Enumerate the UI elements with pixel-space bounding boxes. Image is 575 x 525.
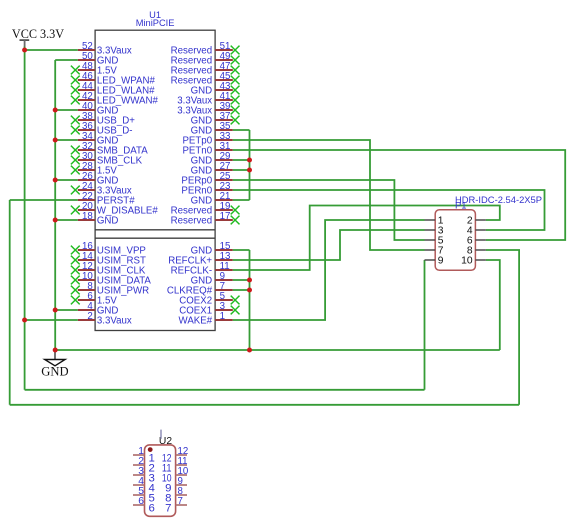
U1 pin 45 Reserved [171,71,240,86]
U2 pin 1 [133,446,155,465]
svg-text:6: 6 [138,496,144,507]
wire REFCLK- to P1 pin2 [233,206,500,271]
wire pin 21 GND tie [233,199,250,201]
junction GND pin40 [53,108,58,113]
svg-text:9: 9 [438,256,444,267]
P1 pin 5 [425,236,444,247]
U2 pin 12 [162,446,188,465]
wire pin 9 GND tie [233,279,250,281]
svg-text:GND: GND [97,216,119,227]
svg-text:MiniPCIE: MiniPCIE [136,18,175,28]
junction GND pin26 [53,178,58,183]
U1 pin 15 GND [191,241,233,256]
wire pin 15 GND tie [233,249,250,251]
P1 pin 9 [425,256,444,267]
wire pin 40 GND [55,109,78,111]
U1 pin 10 USIM_DATA [71,271,152,286]
junction tie GND line [247,348,252,353]
wire P1 pin10 drop [486,260,500,350]
power symbol VCC 3.3V [12,27,64,49]
junction GND pin34 [53,138,58,143]
P1 pin 1 [425,216,444,227]
P1 value HDR-IDC-2.54-2X5P [455,194,542,205]
U1 pin 40 GND [78,101,119,116]
wire pin 7 CLKREQ tie [233,289,250,291]
U1 pin 3 COEX1 [179,301,239,316]
U1 pin 47 Reserved [171,61,240,76]
U1 pin 33 PETp0 [182,131,232,146]
P1 pin 3 [425,226,444,237]
svg-text:10: 10 [461,256,473,267]
U1 pin 16 USIM_VPP [71,241,146,256]
wire GND bottom run [55,349,500,351]
P1 pin 10 [461,256,486,267]
wire pin 34 GND [55,139,78,141]
U1 pin 37 GND [191,111,240,126]
svg-text:17: 17 [220,211,231,222]
U2 pin 9 [165,476,187,495]
svg-text:WAKE#: WAKE# [179,316,213,327]
U1 pin 26 GND [78,171,119,186]
wire pin 4 GND [55,309,78,311]
wire pin 29 GND tie [233,159,250,161]
wire pin 27 GND tie [233,169,250,171]
U2 reference designator [159,436,172,447]
junction VCC pin52 [22,48,27,53]
wire PERST# bottom run [10,404,519,406]
junction VCC pin2 [22,318,27,323]
wire pin 18 GND [55,219,78,221]
wire pin 35 GND tie [233,129,250,131]
wire pin 26 GND [55,179,78,181]
U1 pin 39 3.3Vaux [177,101,239,116]
U2 pin 7 [165,496,187,515]
wire pin 2 3.3Vaux [25,319,78,321]
wire lower GND tie vertical [249,250,251,350]
U2 pin 8 [165,486,187,505]
P1 pin 6 [467,236,486,247]
U1 pin 28 1.5V [71,161,117,176]
wire WAKE# to P1 pin1 [233,220,425,320]
U2 top pin stub [160,430,162,439]
U1 pin 9 GND [191,271,233,286]
wire PERST# rail [9,200,11,405]
wire P1 pin9 drop [424,260,426,390]
svg-text:3.3Vaux: 3.3Vaux [97,316,132,327]
P1 pin 2 [467,216,486,227]
U1 pin 24 3.3Vaux [71,181,132,196]
U1 value MiniPCIE [136,18,175,28]
U1 pin 17 Reserved [171,211,240,226]
wire PETn0 to P1 pin6 [233,150,565,240]
U1 pin 5 COEX2 [179,291,239,306]
U2 pin 1 indicator dot [148,447,153,452]
U1 pin 25 PERp0 [181,171,232,186]
svg-text:2: 2 [87,311,92,322]
U1 pin 42 LED_WWAN# [71,91,159,106]
wire PETp0 to P1 pin7 [233,140,425,250]
U2 pin 10 [162,466,189,485]
junction tie pin29 [247,158,252,163]
U1 pin 52 3.3Vaux [78,41,132,56]
U1 pin 21 GND [191,191,233,206]
U1 pin 29 GND [191,151,233,166]
U1 pin 22 PERST# [78,191,135,206]
U1 pin 18 GND [78,211,119,226]
junction GND pin4 [53,308,58,313]
svg-text:VCC 3.3V: VCC 3.3V [12,27,64,41]
U1 pin 19 Reserved [171,201,240,216]
U1 pin 32 SMB_DATA [71,141,148,156]
wire pin 50 GND [55,59,78,61]
wire upper GND tie vertical [249,130,251,200]
junction tie pin7 [247,288,252,293]
P1 pin 4 [467,226,486,237]
svg-text:Reserved: Reserved [171,216,212,227]
svg-text:7: 7 [165,503,171,515]
U1 pin 6 1.5V [71,291,117,306]
junction tie pin27 [247,168,252,173]
U1 pin 36 USB_D- [71,121,133,136]
wire 3.3V bottom run [25,389,425,391]
U2 pin 3 [133,466,155,485]
wire pin 22 PERST# [10,199,78,201]
wire VCC to pin 52 [25,49,78,51]
U1 pin 50 GND [78,51,119,66]
U2 pin 11 [162,456,188,475]
U1 pin 13 REFCLK+ [168,251,233,266]
U1 pin 44 LED_WLAN# [71,81,155,96]
P1 pin 7 [425,246,444,257]
U1 pin 49 Reserved [171,51,240,66]
U2 pin 5 [133,486,155,505]
wire REFCLK+ to P1 pin3 [233,230,425,260]
U1 pin 46 LED_WPAN# [71,71,156,86]
junction GND pin18 [53,218,58,223]
U1 pin 51 Reserved [171,41,240,56]
U1 pin 41 3.3Vaux [177,91,239,106]
svg-text:GND: GND [41,365,68,379]
U1 pin 27 GND [191,161,233,176]
U1 pin 1 WAKE# [179,311,233,326]
U2 pin 4 [133,476,155,495]
U1 pin 38 USB_D+ [71,111,135,126]
svg-text:HDR-IDC-2.54-2X5P: HDR-IDC-2.54-2X5P [455,194,542,205]
wire P1 pin8 drop [486,250,519,405]
connector P1 HDR-IDC-2.54-2X5P body [435,210,475,271]
connector U1 MiniPCIE body [95,30,215,330]
svg-text:P1: P1 [455,200,466,211]
U1 pin 30 SMB_CLK [71,151,143,166]
U1 pin 35 GND [191,121,233,136]
P1 pin 8 [467,246,486,257]
U1 pin 11 REFCLK- [171,261,233,276]
wire GND rail [54,60,56,350]
U1 pin 7 CLKREQ# [167,281,233,296]
junction tie pin9 [247,278,252,283]
U1 pin 34 GND [78,131,119,146]
U2 pin 2 [133,456,155,475]
component U2 body [145,445,176,516]
wire PERn0 to P1 pin4 [233,190,545,230]
U1 pin 14 USIM_RST [71,251,146,266]
svg-text:1: 1 [220,311,225,322]
svg-text:6: 6 [149,503,155,515]
U1 pin 8 USIM_PWR [71,281,149,296]
U2 pin 6 [133,496,155,515]
svg-text:7: 7 [178,496,183,507]
U1 pin 43 GND [191,81,240,96]
U1 pin 23 PERn0 [181,181,232,196]
ground symbol GND [41,350,68,379]
U1 pin 31 PETn0 [182,141,232,156]
U1 pin 48 1.5V [71,61,117,76]
wire PERp0 to P1 pin5 [233,180,425,240]
P1 reference designator [455,200,466,211]
U1 pin 12 USIM_CLK [71,261,146,276]
U1 pin 20 W_DISABLE# [71,201,158,216]
U1 pin 2 3.3Vaux [78,311,132,326]
svg-text:18: 18 [82,211,93,222]
U1 pin 4 GND [78,301,119,316]
U1 reference designator [149,10,161,20]
junction GND bottom [53,348,58,353]
wire VCC rail [24,47,26,390]
